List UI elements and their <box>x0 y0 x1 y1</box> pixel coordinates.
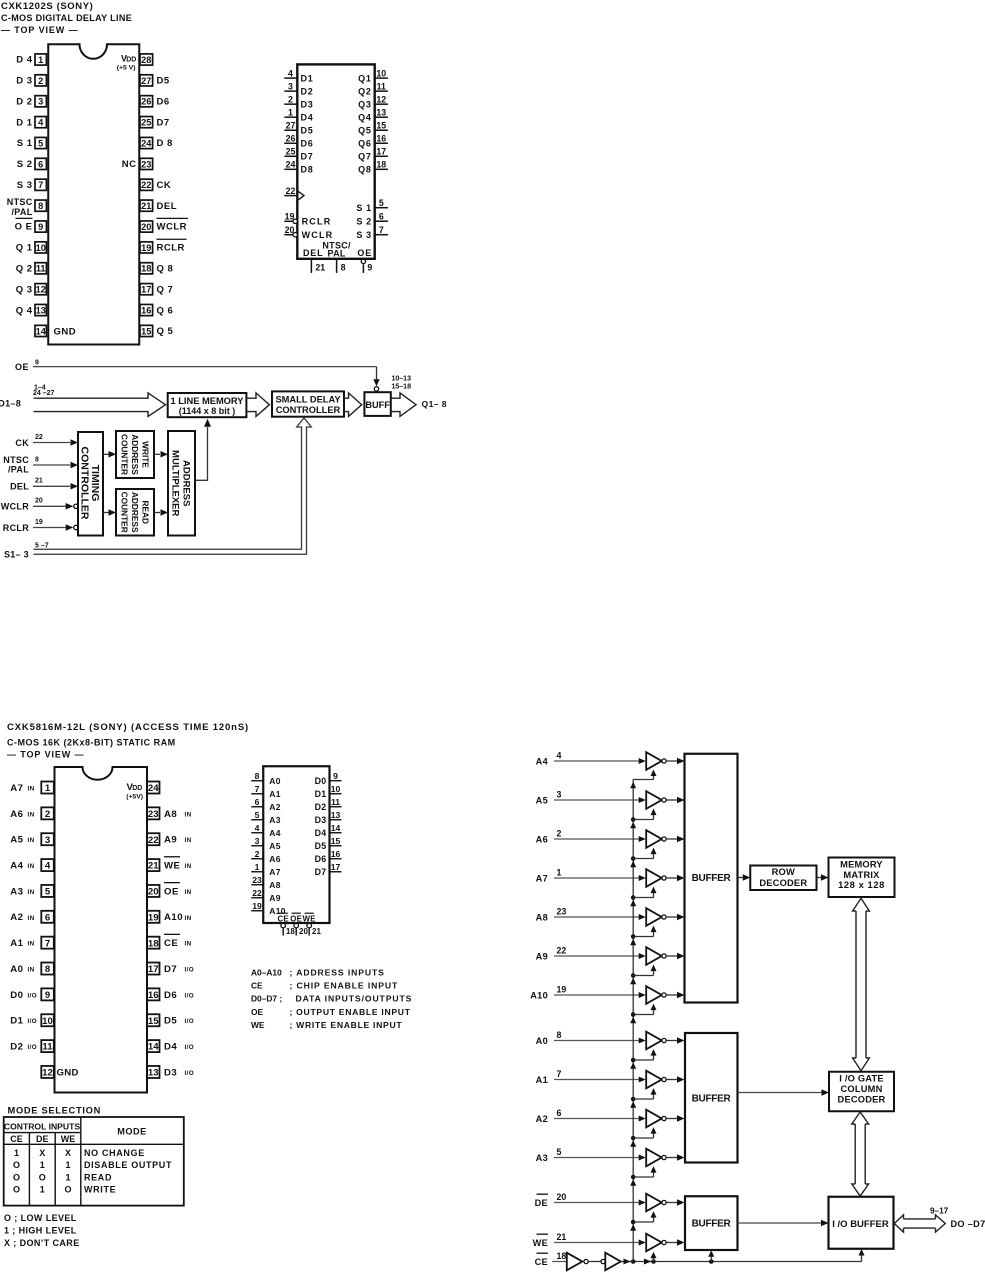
svg-text:DATA INPUTS/OUTPUTS: DATA INPUTS/OUTPUTS <box>296 994 413 1004</box>
pin stub D5 input of symbol U1 <box>284 120 313 135</box>
block SMALL DELAY CONTROLLER <box>272 391 344 416</box>
svg-text:DO –D7: DO –D7 <box>951 1219 985 1229</box>
pin 7 S 3 of U1 <box>17 179 47 191</box>
svg-text:A10: A10 <box>530 990 548 1000</box>
pin 14 GND of U1 <box>35 325 76 337</box>
svg-text:I/O: I/O <box>185 1044 195 1051</box>
pin 22 A9 of U2 <box>147 833 192 846</box>
pin 7 A1 of U2 <box>10 937 54 950</box>
svg-text:DEL: DEL <box>303 248 323 258</box>
pin stub A8 address input of symbol U2 <box>251 875 281 890</box>
svg-text:CE: CE <box>277 914 288 923</box>
svg-text:O: O <box>64 1185 71 1195</box>
svg-text:5: 5 <box>379 198 384 208</box>
svg-text:OE: OE <box>290 914 302 923</box>
svg-text:10: 10 <box>331 784 341 794</box>
pin 23 A8 of U2 <box>147 807 192 820</box>
svg-text:28: 28 <box>141 55 151 65</box>
svg-text:8: 8 <box>341 263 346 273</box>
svg-text:BUFFER: BUFFER <box>692 873 732 884</box>
wire A9 pin 22 with inverter into buffer <box>536 946 685 965</box>
svg-text:COLUMN: COLUMN <box>841 1084 883 1094</box>
pin stub 18 CE bottom of symbol U2 <box>277 913 295 936</box>
title CXK5816M heading <box>7 722 249 760</box>
svg-text:WCLR: WCLR <box>157 222 188 233</box>
wire DEL pin 21 into timing controller <box>10 478 78 492</box>
svg-text:D7: D7 <box>301 152 314 162</box>
title CXK1202S heading <box>1 1 132 35</box>
svg-text:1: 1 <box>45 783 51 794</box>
svg-text:RCLR: RCLR <box>302 217 332 227</box>
svg-text:16: 16 <box>148 990 159 1001</box>
svg-text:A9: A9 <box>269 893 280 903</box>
svg-text:3: 3 <box>45 835 50 846</box>
pin 17 Q 7 of U1 <box>140 284 173 296</box>
svg-text:26: 26 <box>286 133 296 143</box>
svg-text:CE: CE <box>10 1134 23 1144</box>
svg-text:O ; LOW LEVEL: O ; LOW LEVEL <box>4 1213 77 1223</box>
svg-text:18: 18 <box>148 938 159 949</box>
svg-text:X ; DON’T CARE: X ; DON’T CARE <box>4 1238 80 1248</box>
wire CE pin 18 with double inverter chain <box>535 1251 862 1270</box>
svg-text:20: 20 <box>285 225 295 235</box>
svg-text:2: 2 <box>288 94 293 104</box>
svg-text:D 3: D 3 <box>16 76 32 87</box>
svg-text:DE: DE <box>535 1198 548 1208</box>
pin 5 S 1 of U1 <box>17 137 47 149</box>
wire A7 pin 1 with inverter into buffer <box>536 868 685 887</box>
svg-text:Q 2: Q 2 <box>16 264 33 275</box>
svg-text:Q4: Q4 <box>358 112 372 122</box>
svg-text:CK: CK <box>157 180 172 191</box>
svg-text:CK: CK <box>15 438 29 448</box>
pin stub 20 OE bottom of symbol U2 <box>290 913 308 936</box>
svg-text:2: 2 <box>45 809 50 820</box>
block ADDRESS MULTIPLEXER <box>168 431 195 536</box>
svg-text:A0: A0 <box>269 776 280 786</box>
block control BUFFER lower <box>685 1196 738 1250</box>
svg-text:2: 2 <box>38 76 43 86</box>
svg-text:WCLR: WCLR <box>302 230 334 240</box>
bus arrow BUFF to Q1-8 output <box>391 376 447 417</box>
svg-text:10: 10 <box>42 1016 53 1027</box>
svg-text:14: 14 <box>36 326 47 336</box>
svg-text:21: 21 <box>557 1232 567 1242</box>
svg-text:D7: D7 <box>164 964 177 975</box>
svg-text:I /O GATE: I /O GATE <box>839 1074 884 1084</box>
svg-text:10: 10 <box>36 243 46 253</box>
junction CE line to WE inverter stub <box>651 1252 657 1264</box>
svg-text:1: 1 <box>255 862 260 872</box>
pin 14 D4 of U2 <box>147 1040 194 1053</box>
svg-text:D5: D5 <box>315 841 327 851</box>
svg-text:8: 8 <box>557 1030 562 1040</box>
svg-text:D1: D1 <box>301 73 314 83</box>
svg-text:A8: A8 <box>269 880 280 890</box>
pin 2 D 3 of U1 <box>16 75 46 87</box>
svg-text:DISABLE OUTPUT: DISABLE OUTPUT <box>84 1160 172 1170</box>
svg-text:OE: OE <box>251 1007 264 1017</box>
svg-text:1: 1 <box>65 1172 70 1182</box>
svg-text:O: O <box>39 1172 46 1182</box>
svg-text:9: 9 <box>45 990 50 1001</box>
svg-text:D 2: D 2 <box>16 96 32 107</box>
wire A4 pin 4 with inverter into buffer <box>536 751 685 770</box>
pin 13 Q 4 of U1 <box>16 304 47 316</box>
pin stub S1 select of symbol U1 <box>356 198 388 213</box>
svg-text:9: 9 <box>333 771 338 781</box>
svg-text:16: 16 <box>141 305 151 315</box>
svg-text:MEMORY: MEMORY <box>840 860 883 870</box>
svg-text:D4: D4 <box>301 112 314 122</box>
pin 24 VDD of U2 <box>126 782 159 801</box>
svg-text:19: 19 <box>557 985 567 995</box>
svg-text:A3: A3 <box>269 815 280 825</box>
svg-text:(1144 x 8 bit ): (1144 x 8 bit ) <box>179 406 236 416</box>
svg-text:D7: D7 <box>157 117 170 128</box>
svg-text:3: 3 <box>557 790 562 800</box>
pin stub D7 data line of symbol U2 <box>315 862 342 877</box>
svg-text:4: 4 <box>288 68 293 78</box>
svg-text:18: 18 <box>141 264 151 274</box>
svg-text:24: 24 <box>141 138 152 148</box>
pin 16 Q 6 of U1 <box>140 304 173 316</box>
table mode selection grid <box>4 1117 184 1206</box>
svg-text:14: 14 <box>331 823 341 833</box>
svg-text:17: 17 <box>331 862 341 872</box>
pin 28 VDD of U1 <box>117 54 153 72</box>
pin stub Q3 output of symbol U1 <box>358 94 388 109</box>
svg-text:A3: A3 <box>10 886 23 897</box>
pin stub Q5 output of symbol U1 <box>358 120 388 135</box>
svg-text:CE: CE <box>251 981 263 991</box>
svg-text:A5: A5 <box>536 795 548 805</box>
svg-text:27: 27 <box>286 120 296 130</box>
svg-text:D2: D2 <box>10 1042 23 1053</box>
pin stub Q8 output of symbol U1 <box>358 160 388 175</box>
svg-text:7: 7 <box>38 180 43 190</box>
svg-text:D2: D2 <box>301 86 314 96</box>
op-amp U1 CXK1202S DIP-28 package body <box>48 44 139 344</box>
wire A0 pin 8 with inverter into buffer <box>536 1030 685 1049</box>
svg-text:4: 4 <box>38 118 44 128</box>
svg-text:O: O <box>13 1185 20 1195</box>
svg-text:S 2: S 2 <box>17 159 33 170</box>
svg-text:X: X <box>39 1148 45 1158</box>
svg-text:18: 18 <box>286 927 295 936</box>
svg-text:D5: D5 <box>301 126 314 136</box>
svg-text:S 1: S 1 <box>17 138 33 149</box>
block ROW DECODER <box>750 866 816 891</box>
svg-text:A8: A8 <box>164 809 177 820</box>
svg-text:24 –27: 24 –27 <box>33 390 55 397</box>
svg-text:23: 23 <box>557 907 567 917</box>
svg-text:X: X <box>65 1148 71 1158</box>
svg-text:11: 11 <box>42 1042 53 1053</box>
pin 17 D7 of U2 <box>147 963 194 976</box>
svg-text:Q 6: Q 6 <box>157 305 174 316</box>
svg-text:8: 8 <box>45 964 51 975</box>
svg-text:15: 15 <box>141 326 151 336</box>
svg-text:1: 1 <box>40 1185 45 1195</box>
svg-text:NO CHANGE: NO CHANGE <box>84 1148 145 1158</box>
svg-text:22: 22 <box>557 946 567 956</box>
svg-text:D1–8: D1–8 <box>0 399 21 409</box>
table row WRITE <box>13 1185 116 1195</box>
svg-text:WE: WE <box>303 914 316 923</box>
bus memory matrix to I/O gate double arrow <box>853 898 870 1070</box>
block address BUFFER upper <box>685 754 738 1003</box>
pin 12 Q 3 of U1 <box>16 284 47 296</box>
pin stub 21 WE bottom of symbol U2 <box>303 913 322 936</box>
svg-text:C-MOS 16K (2Kx8-BIT) STATIC RA: C-MOS 16K (2Kx8-BIT) STATIC RAM <box>7 738 176 748</box>
logic symbol U2 CXK5816M box <box>263 766 329 923</box>
svg-text:C-MOS DIGITAL DELAY LINE: C-MOS DIGITAL DELAY LINE <box>1 13 132 23</box>
svg-text:Q6: Q6 <box>358 139 372 149</box>
svg-text:A1: A1 <box>269 789 280 799</box>
svg-text:D5: D5 <box>164 1016 177 1027</box>
svg-text:25: 25 <box>141 118 151 128</box>
svg-text:8: 8 <box>35 456 39 463</box>
svg-text:I/O: I/O <box>28 992 38 999</box>
svg-text:Q 3: Q 3 <box>16 284 33 295</box>
svg-text:; WRITE ENABLE INPUT: ; WRITE ENABLE INPUT <box>290 1020 403 1030</box>
svg-text:7: 7 <box>557 1069 562 1079</box>
svg-text:— TOP VIEW —: — TOP VIEW — <box>7 750 84 760</box>
pin stub D4 input of symbol U1 <box>284 107 313 122</box>
svg-text:128 x 128: 128 x 128 <box>838 880 885 890</box>
svg-text:BUFFER: BUFFER <box>692 1219 732 1230</box>
pin stub 20 WCLR of symbol U1 <box>284 225 333 240</box>
svg-text:D6: D6 <box>157 96 170 107</box>
svg-text:D0–D7 ;: D0–D7 ; <box>251 994 282 1004</box>
svg-text:D0: D0 <box>10 990 23 1001</box>
block BUFF output buffer <box>364 392 390 416</box>
junction CE line to lower buffer stub <box>708 1250 714 1263</box>
wire A1 pin 7 with inverter into buffer <box>536 1069 685 1088</box>
pin stub Q2 output of symbol U1 <box>358 81 388 96</box>
svg-text:5: 5 <box>45 887 51 898</box>
pin 22 CK of U1 <box>140 179 171 191</box>
pin stub 21 DEL bottom of symbol U1 <box>303 248 325 273</box>
svg-text:A9: A9 <box>164 835 177 846</box>
pin stub D8 input of symbol U1 <box>284 160 313 175</box>
pin stub A1 address input of symbol U2 <box>251 784 281 799</box>
svg-text:NC: NC <box>122 159 137 170</box>
wire lower buffer to I/O buffer <box>738 1220 829 1227</box>
svg-text:3: 3 <box>255 836 260 846</box>
svg-text:1: 1 <box>38 55 43 65</box>
wire CE line up into I/O buffer <box>859 1249 865 1262</box>
svg-text:A8: A8 <box>536 912 548 922</box>
pin 5 A3 of U2 <box>10 885 54 898</box>
svg-text:READ: READ <box>84 1172 112 1182</box>
svg-text:S 3: S 3 <box>17 180 33 191</box>
svg-text:A5: A5 <box>10 835 23 846</box>
wire A3 pin 5 with inverter into buffer <box>536 1147 685 1166</box>
pin stub A9 address input of symbol U2 <box>251 888 281 903</box>
wire A5 pin 3 with inverter into buffer <box>536 790 685 809</box>
pin stub D5 data line of symbol U2 <box>315 836 342 851</box>
pin stub A5 address input of symbol U2 <box>251 836 281 851</box>
svg-text:4: 4 <box>255 823 260 833</box>
pin 9 OE of U1 <box>15 218 47 232</box>
svg-text:21: 21 <box>148 861 159 872</box>
pin 3 D 2 of U1 <box>16 96 46 108</box>
block I/O BUFFER <box>829 1197 894 1249</box>
svg-text:Q5: Q5 <box>358 126 372 136</box>
svg-text:14: 14 <box>148 1042 159 1053</box>
pin 1 A7 of U2 <box>10 782 54 795</box>
svg-text:A2: A2 <box>10 912 23 923</box>
svg-text:IN: IN <box>28 967 35 974</box>
svg-text:I/O: I/O <box>185 967 195 974</box>
svg-text:11: 11 <box>377 81 386 91</box>
svg-text:S 2: S 2 <box>356 217 371 227</box>
svg-text:/PAL: /PAL <box>11 207 32 217</box>
legend logic levels <box>4 1213 80 1248</box>
svg-text:IN: IN <box>185 837 192 844</box>
svg-text:22: 22 <box>252 888 262 898</box>
svg-text:I /O BUFFER: I /O BUFFER <box>832 1219 889 1230</box>
bus S1-3 pins 5-7 into controller <box>4 418 311 560</box>
pin 24 D 8 of U1 <box>140 137 173 149</box>
wire row decoder to memory matrix <box>817 874 829 881</box>
svg-text:D4: D4 <box>315 828 327 838</box>
pin 2 A6 of U2 <box>10 807 54 820</box>
pin 4 A4 of U2 <box>10 859 54 872</box>
svg-text:MODE: MODE <box>117 1127 147 1137</box>
junction bus branch to inverter at y=917 <box>630 926 656 946</box>
svg-text:13: 13 <box>376 107 386 117</box>
svg-text:IN: IN <box>28 915 35 922</box>
op-amp U2 CXK5816M DIP-24 package body <box>55 767 148 1093</box>
pin 21 WE of U2 <box>147 857 192 872</box>
svg-text:D6: D6 <box>301 139 314 149</box>
pin 19 RCLR of U1 <box>140 239 187 253</box>
svg-text:22: 22 <box>148 835 159 846</box>
svg-text:WCLR: WCLR <box>1 502 29 512</box>
svg-text:5: 5 <box>38 138 43 148</box>
svg-text:19: 19 <box>285 212 295 222</box>
junction bus branch to inverter at y=1079.5 <box>630 1088 656 1108</box>
svg-text:A7: A7 <box>10 783 23 794</box>
svg-text:A4: A4 <box>10 860 23 871</box>
svg-text:19: 19 <box>35 519 43 526</box>
svg-text:20: 20 <box>557 1192 567 1202</box>
junction CE line to vertical bus <box>631 1259 636 1264</box>
block 1 LINE MEMORY (1144 x 8 bit) <box>168 393 247 417</box>
svg-text:D6: D6 <box>164 990 177 1001</box>
svg-text:11: 11 <box>331 797 340 807</box>
svg-text:17: 17 <box>141 285 151 295</box>
svg-text:I/O: I/O <box>185 1018 195 1025</box>
svg-text:18: 18 <box>557 1251 567 1261</box>
pin stub D6 input of symbol U1 <box>284 133 313 148</box>
svg-text:WE: WE <box>251 1020 265 1030</box>
svg-text:/PAL: /PAL <box>8 464 29 474</box>
wire A2 pin 6 with inverter into buffer <box>536 1108 685 1127</box>
svg-text:21: 21 <box>312 927 321 936</box>
svg-text:Q1: Q1 <box>358 73 372 83</box>
svg-text:D8: D8 <box>301 165 314 175</box>
svg-text:21: 21 <box>315 263 325 273</box>
svg-text:IN: IN <box>185 915 192 922</box>
block READ ADDRESS COUNTER <box>116 489 154 536</box>
svg-text:15: 15 <box>331 836 341 846</box>
pin stub D3 data line of symbol U2 <box>315 810 342 825</box>
svg-text:WRITE: WRITE <box>84 1185 116 1195</box>
pin 11 D2 of U2 <box>10 1040 54 1053</box>
svg-text:16: 16 <box>331 849 341 859</box>
pin 18 Q 8 of U1 <box>140 263 173 275</box>
wire middle buffer to I/O gate column decoder <box>738 1089 830 1096</box>
svg-text:IN: IN <box>28 941 35 948</box>
svg-text:19: 19 <box>252 901 262 911</box>
svg-text:Q 8: Q 8 <box>157 264 174 275</box>
svg-text:22: 22 <box>35 434 43 441</box>
svg-text:A6: A6 <box>269 854 280 864</box>
svg-text:WE: WE <box>61 1134 76 1144</box>
wire RCLR pin 19 into timing controller <box>3 519 78 533</box>
svg-text:22: 22 <box>141 180 151 190</box>
svg-text:A1: A1 <box>10 938 23 949</box>
svg-text:; OUTPUT ENABLE INPUT: ; OUTPUT ENABLE INPUT <box>290 1007 411 1017</box>
svg-text:5: 5 <box>255 810 260 820</box>
svg-text:D7: D7 <box>315 867 327 877</box>
svg-text:Q 4: Q 4 <box>16 305 33 316</box>
pin 21 DEL of U1 <box>140 200 177 212</box>
pin 8 NTSC/PAL of U1 <box>7 197 47 217</box>
svg-text:IN: IN <box>185 941 192 948</box>
svg-text:2: 2 <box>255 849 260 859</box>
block I/O GATE COLUMN DECODER <box>829 1072 894 1112</box>
wire timing controller to read address counter <box>103 509 116 516</box>
pin stub Q1 output of symbol U1 <box>358 68 388 83</box>
svg-text:17: 17 <box>376 146 386 156</box>
svg-text:13: 13 <box>36 305 46 315</box>
pin stub A7 address input of symbol U2 <box>251 862 281 877</box>
svg-text:12: 12 <box>36 285 46 295</box>
svg-text:6: 6 <box>557 1108 562 1118</box>
pin 15 Q 5 of U1 <box>140 325 174 337</box>
pin stub 19 RCLR of symbol U1 <box>284 212 331 227</box>
svg-text:S 1: S 1 <box>356 203 371 213</box>
svg-text:8: 8 <box>38 201 43 211</box>
svg-text:15: 15 <box>148 1016 159 1027</box>
pin stub D2 input of symbol U1 <box>284 81 313 96</box>
svg-text:5: 5 <box>557 1147 562 1157</box>
pin 10 D1 of U2 <box>10 1014 54 1027</box>
pin stub A3 address input of symbol U2 <box>251 810 281 825</box>
svg-text:5 –7: 5 –7 <box>35 542 49 549</box>
svg-text:24: 24 <box>286 160 296 170</box>
svg-text:22: 22 <box>286 186 296 196</box>
svg-text:A1: A1 <box>536 1075 548 1085</box>
svg-text:IN: IN <box>28 889 35 896</box>
svg-text:1: 1 <box>65 1160 70 1170</box>
svg-text:8: 8 <box>255 771 260 781</box>
svg-text:D1: D1 <box>315 789 327 799</box>
svg-text:A2: A2 <box>536 1114 548 1124</box>
svg-text:D1: D1 <box>10 1016 23 1027</box>
svg-text:D2: D2 <box>315 802 327 812</box>
svg-text:4: 4 <box>557 751 562 761</box>
svg-text:; ADDRESS INPUTS: ; ADDRESS INPUTS <box>290 968 385 978</box>
svg-text:16: 16 <box>376 133 386 143</box>
svg-text:BUFFER: BUFFER <box>692 1094 732 1105</box>
pin stub D0 data line of symbol U2 <box>315 771 342 786</box>
